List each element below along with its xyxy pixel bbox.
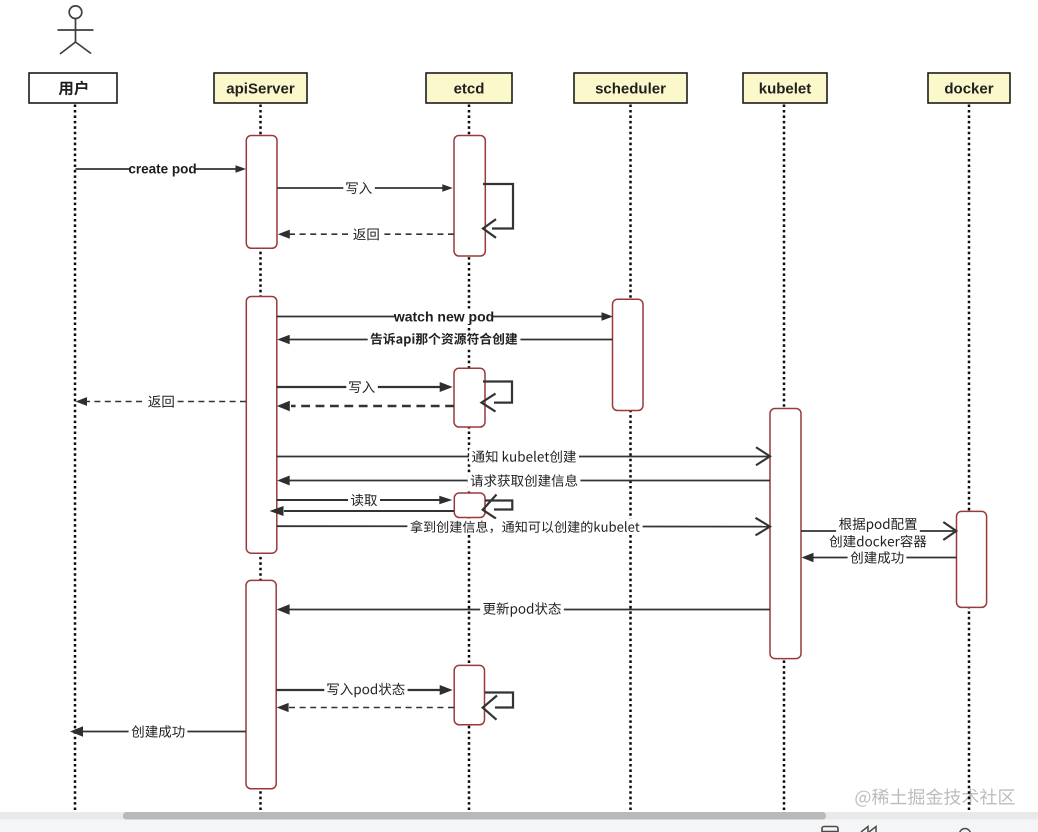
etcd self-loop 2 <box>482 382 513 412</box>
arrow 创建成功 (docker to kubelet) <box>802 553 957 563</box>
etcd self-loop 1 <box>483 184 513 238</box>
label 拿到创建信息，通知可以创建的kubelet <box>407 519 642 535</box>
arrow 请求获取创建信息 <box>277 476 770 486</box>
svg-text:watch new pod: watch new pod <box>393 308 494 324</box>
header label 用户 <box>59 81 88 96</box>
svg-text:scheduler: scheduler <box>595 80 666 97</box>
dashed return etcd to apiServer (3) <box>277 703 454 712</box>
label 创建成功 (bottom) <box>129 723 188 739</box>
label 返回 (1) <box>350 226 382 242</box>
arrow 告诉api那个资源符合创建 <box>277 335 612 345</box>
watermark 稀土掘金 <box>855 788 1014 806</box>
svg-text:kubelet: kubelet <box>759 80 812 97</box>
activation bar K1 kubelet <box>770 409 801 659</box>
activation bar D1 docker <box>957 511 987 607</box>
activation bar S1 scheduler <box>613 299 644 410</box>
solid return etcd to apiServer (读取结果) <box>270 506 455 516</box>
label 创建docker容器 <box>827 533 930 549</box>
svg-text:create pod: create pod <box>128 162 196 177</box>
label 根据pod配置 <box>836 517 920 533</box>
label 写入 (1) <box>343 180 375 196</box>
bottom toolbar strip <box>0 820 1038 832</box>
activation bar E2 etcd <box>454 368 485 427</box>
label 写入 (2) <box>346 379 378 395</box>
label 更新pod状态 <box>480 601 564 617</box>
header box kubelet <box>743 73 827 103</box>
dashed thick return etcd to apiServer <box>277 401 454 411</box>
label 创建成功 (right) <box>848 549 907 565</box>
svg-text:etcd: etcd <box>454 80 485 97</box>
arrow 写入pod状态 <box>277 685 453 695</box>
activation bar E4 etcd <box>454 665 484 724</box>
arrow 拿到创建信息，通知可以创建的kubelet <box>277 518 770 536</box>
label 告诉api那个资源符合创建 <box>368 332 521 347</box>
label 通知 kubelet创建 <box>469 448 579 464</box>
arrow create pod <box>76 165 247 173</box>
lifeline etcd <box>468 105 471 811</box>
etcd self-loop 4 <box>483 693 513 720</box>
toolbar icon undo <box>861 827 876 832</box>
arrow 创建成功 to 用户 <box>70 726 246 736</box>
label 写入pod状态 <box>324 682 407 698</box>
arrow 写入 (2) thick <box>277 382 453 392</box>
header box docker <box>928 73 1010 103</box>
arrow 写入 (1) <box>277 184 453 192</box>
scrollbar track <box>0 812 1038 820</box>
activation bar A3 apiServer <box>246 580 276 788</box>
scrollbar thumb <box>123 812 826 820</box>
lifeline docker <box>968 105 971 811</box>
header box apiServer <box>214 73 307 103</box>
actor stick figure 用户 <box>58 6 94 54</box>
label watch new pod <box>395 309 493 325</box>
arrow 通知 kubelet创建 <box>277 447 770 465</box>
header box scheduler <box>574 73 687 103</box>
dashed return 返回 to 用户 <box>76 397 247 406</box>
arrow 根据pod配置创建docker容器 <box>801 522 956 540</box>
activation bar E3 etcd <box>454 493 485 518</box>
header box 用户 <box>29 73 117 103</box>
activation bar A1 apiServer <box>246 136 277 249</box>
lifeline 用户 <box>74 105 77 811</box>
toolbar icon zoom <box>960 829 971 832</box>
arrow watch new pod <box>277 312 613 320</box>
lifeline kubelet <box>783 105 786 811</box>
lifeline apiServer <box>259 105 262 811</box>
etcd self-loop 3 <box>483 495 513 519</box>
activation bar E1 etcd <box>454 136 485 257</box>
activation bar A2 apiServer <box>246 297 276 554</box>
arrow 读取 <box>277 496 453 504</box>
svg-text:apiServer: apiServer <box>226 80 295 97</box>
label 请求获取创建信息 <box>468 472 581 488</box>
toolbar icon minimap <box>822 827 838 832</box>
label 返回 (2) <box>145 393 177 409</box>
lifeline scheduler <box>629 105 632 811</box>
header box etcd <box>426 73 512 103</box>
label 读取 <box>348 492 380 508</box>
arrow 更新pod状态 <box>277 604 770 614</box>
label create pod <box>130 162 196 177</box>
dashed return 返回 (1) <box>278 230 454 239</box>
svg-text:docker: docker <box>944 80 993 97</box>
